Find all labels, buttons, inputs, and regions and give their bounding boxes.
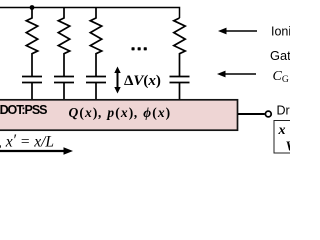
arrow CG (left-pointing) <box>217 71 256 78</box>
capacitor C3 <box>86 77 106 101</box>
capacitor C2 <box>54 77 74 101</box>
resistor R4 <box>174 18 185 76</box>
svg-text:Ionic: Ionic <box>271 25 290 39</box>
delta-V double arrow <box>114 67 120 94</box>
PEDOT:PSS channel box <box>0 100 238 130</box>
svg-text:Drain: Drain <box>277 104 291 118</box>
svg-text:PEDOT:PSS: PEDOT:PSS <box>0 103 47 117</box>
svg-text:, x′ = x/L: , x′ = x/L <box>0 132 54 151</box>
boundary condition box <box>274 121 298 154</box>
svg-text:x: x <box>278 123 286 138</box>
svg-text:ΔV(x): ΔV(x) <box>124 73 161 89</box>
resistor R2 <box>58 8 69 77</box>
capacitor C4 <box>170 77 190 101</box>
x axis arrow <box>0 147 73 154</box>
svg-text:V: V <box>286 140 291 155</box>
arrow ionic (left-pointing) <box>218 28 257 35</box>
node junction dot <box>30 5 35 10</box>
svg-text:Gate: Gate <box>270 48 290 63</box>
top rail wire <box>0 8 180 19</box>
ellipsis dots <box>132 47 147 50</box>
svg-text:Q(x), p(x), ϕ(x): Q(x), p(x), ϕ(x) <box>69 105 172 120</box>
resistor R3 <box>90 8 101 77</box>
drain wire <box>238 113 265 115</box>
capacitor C1 <box>22 77 42 101</box>
drain terminal circle <box>265 111 271 117</box>
svg-text:CG: CG <box>273 69 289 85</box>
resistor R1 <box>26 8 37 77</box>
